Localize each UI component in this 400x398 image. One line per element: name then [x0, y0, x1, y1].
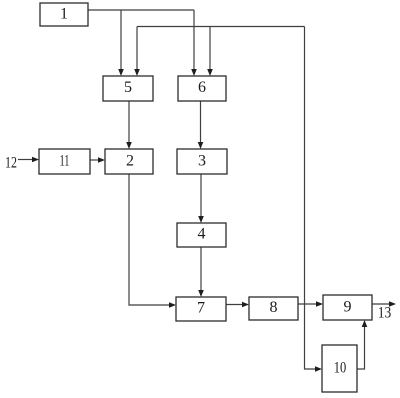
svg-text:4: 4 [198, 226, 206, 243]
svg-text:10: 10 [334, 360, 347, 377]
svg-text:2: 2 [126, 153, 134, 170]
svg-text:13: 13 [378, 305, 392, 322]
svg-text:6: 6 [198, 79, 206, 96]
svg-text:1: 1 [60, 6, 68, 23]
svg-text:8: 8 [270, 299, 278, 316]
svg-text:11: 11 [60, 153, 70, 170]
svg-text:7: 7 [197, 300, 205, 317]
svg-text:5: 5 [124, 79, 132, 96]
svg-text:3: 3 [198, 153, 206, 170]
svg-text:9: 9 [344, 299, 352, 316]
svg-text:12: 12 [5, 155, 17, 172]
